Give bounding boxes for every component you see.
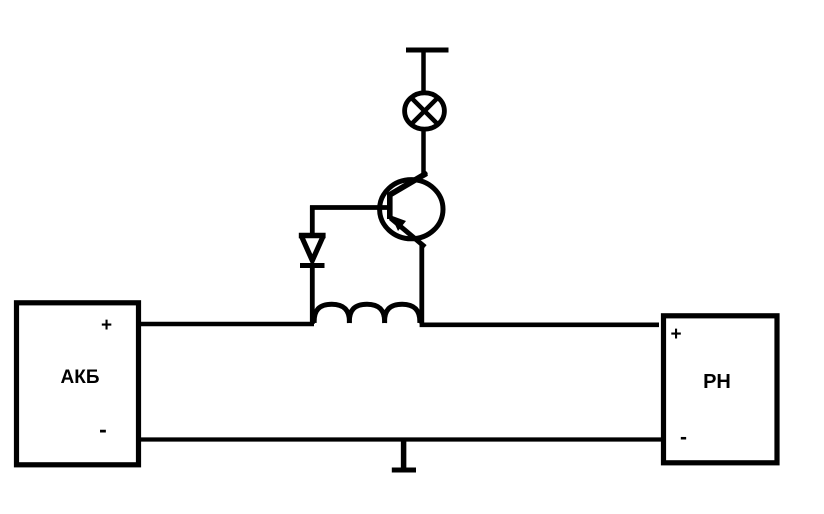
regulator RN plus label — [666, 324, 686, 346]
lamp HL1 cross — [411, 97, 439, 125]
regulator RN name label — [687, 371, 747, 394]
wire base corner down to diode — [310, 206, 315, 235]
diode VD1 cathode bar — [300, 263, 325, 268]
ground stub — [401, 440, 407, 468]
battery AKB plus label — [97, 315, 117, 337]
transistor VT1 emitter diagonal — [391, 218, 426, 247]
battery AKB name label — [50, 367, 110, 389]
transistor VT1 circle — [380, 180, 443, 239]
transistor VT1 base bar — [387, 193, 393, 220]
diode VD1 triangle — [302, 237, 323, 261]
transistor VT1 emitter arrowhead — [391, 216, 406, 232]
wire lamp to transistor collector — [421, 131, 426, 177]
wire inductor to RN plus — [420, 322, 659, 327]
inductor L1 — [314, 304, 420, 323]
regulator RN minus label — [674, 426, 694, 450]
diode VD1 anode bar — [299, 233, 326, 238]
transistor VT1 collector diagonal — [390, 173, 427, 195]
regulator RN box — [664, 316, 778, 463]
battery AKB box — [17, 303, 139, 465]
lamp HL1 circle — [405, 93, 445, 129]
wire transistor emitter down to inductor right node — [419, 244, 424, 324]
battery AKB minus label — [93, 416, 113, 443]
power rail bar — [406, 48, 449, 53]
wire diode to inductor node — [310, 265, 315, 324]
wire base lead — [310, 205, 390, 210]
wire power bar to lamp — [421, 50, 426, 91]
ground bar — [392, 468, 416, 473]
wire bottom AKB minus to RN minus — [141, 437, 662, 441]
wire AKB plus to inductor — [141, 322, 314, 327]
